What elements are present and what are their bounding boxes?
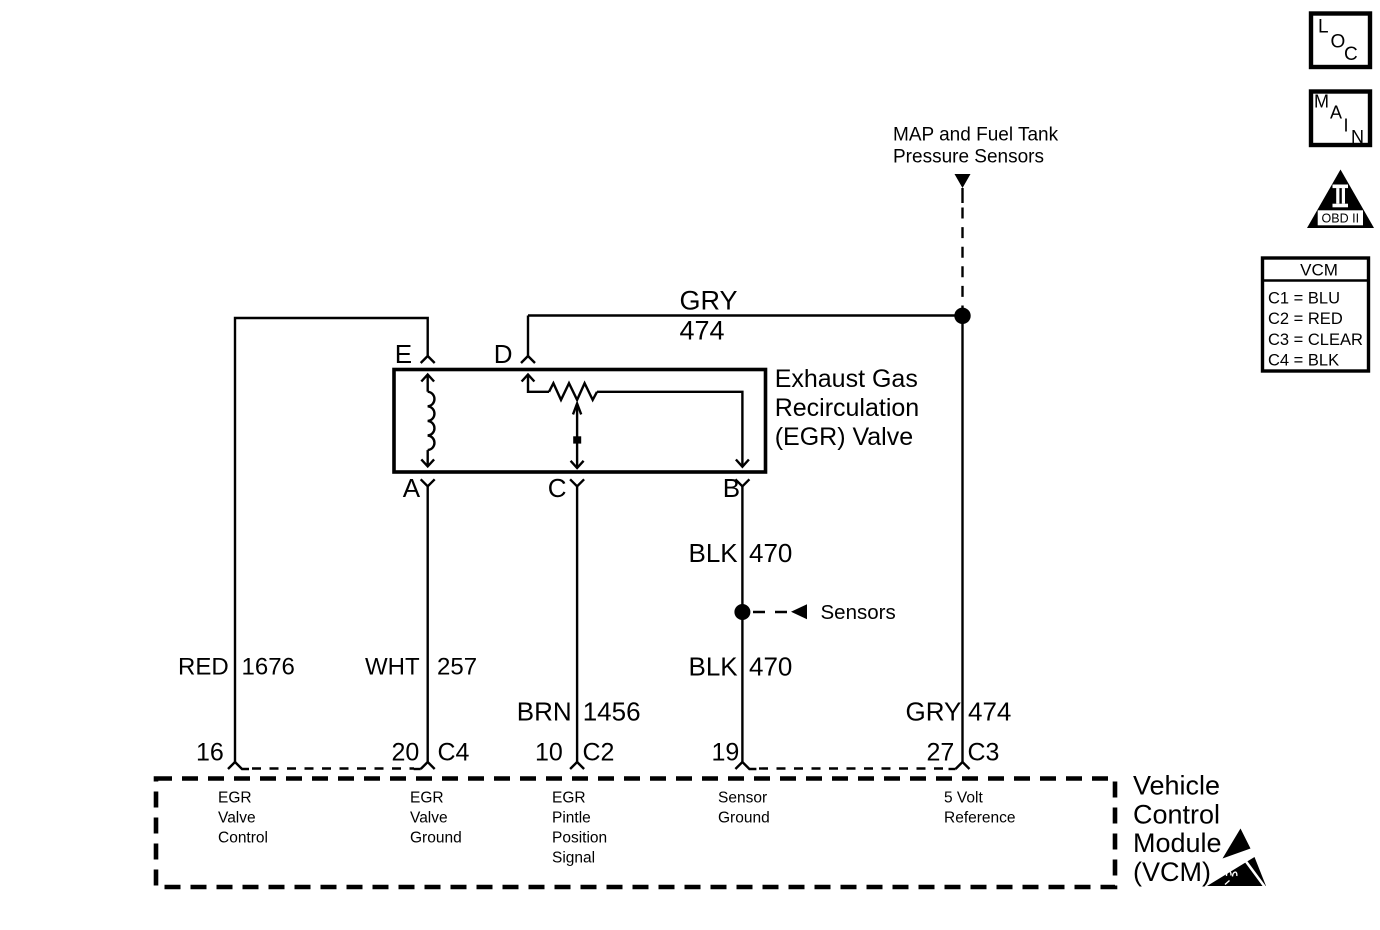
VCM module dashed box [156,779,1115,888]
svg-text:470: 470 [749,538,792,568]
label RED 1676 [178,654,295,681]
svg-text:RED: RED [178,654,229,681]
svg-text:Sensors: Sensors [821,601,896,624]
svg-text:Position: Position [552,830,607,847]
svg-text:10: 10 [535,738,563,766]
wire: BRN 1456 from C to VCM pin 10 [576,486,578,762]
label BRN 1456 [517,697,641,727]
wire: GRY 474 vertical to VCM pin 27 [961,316,963,763]
svg-text:(EGR) Valve: (EGR) Valve [775,423,913,451]
svg-text:D: D [494,339,513,369]
svg-text:Recirculation: Recirculation [775,394,920,422]
svg-text:C1 = BLU: C1 = BLU [1268,290,1340,308]
svg-text:GRY: GRY [680,286,738,316]
wire: dashed to Sensors [753,611,788,613]
MAIN reference box [1311,92,1370,148]
label: EGR Valve Ground [410,790,462,847]
LOC reference box [1311,14,1370,68]
svg-text:Control: Control [1133,799,1220,829]
svg-text:257: 257 [437,654,477,681]
connector terminal A (Y) [421,479,435,486]
svg-text:Sensor: Sensor [718,790,767,807]
label: Sensor Ground [718,790,770,827]
svg-text:GRY: GRY [906,697,962,727]
connector C4 dashed link pins 16-20 [252,767,414,769]
svg-text:5 Volt: 5 Volt [944,790,983,807]
svg-text:1456: 1456 [583,697,641,727]
wire: from EGR pin D up to GRY wire [527,316,529,357]
label: Exhaust Gas Recirculation (EGR) Valve [775,365,920,451]
VCM pin 10 connector C2 [535,738,614,769]
wire: GRY 474 horizontal from EGR D to junction [528,314,963,316]
VCM pin 19 connector [712,738,757,769]
svg-text:Valve: Valve [218,810,256,827]
svg-text:A: A [403,473,421,503]
VCM pin 16 connector [196,738,249,769]
off-page arrow to MAP sensors [955,174,971,188]
svg-text:BLK: BLK [689,652,739,682]
svg-text:EGR: EGR [410,790,444,807]
VCM pin 20 connector C4 [392,738,470,769]
resistor zigzag [549,383,597,400]
label: EGR Valve Control [218,790,268,847]
svg-text:C3: C3 [968,738,1000,766]
wire: dashed GRY to MAP sensors [961,188,963,203]
svg-text:WHT: WHT [365,654,420,681]
svg-text:Pintle: Pintle [552,810,591,827]
svg-text:474: 474 [968,697,1011,727]
svg-text:EGR: EGR [218,790,252,807]
OBD II symbol [1307,170,1374,229]
svg-text:A: A [1330,103,1342,123]
svg-text:BRN: BRN [517,697,572,727]
svg-text:Ground: Ground [410,830,462,847]
svg-text:16: 16 [196,738,224,766]
svg-text:C: C [1344,44,1358,65]
wiper contact square [573,436,581,443]
label: Vehicle Control Module (VCM) [1133,771,1222,887]
svg-text:C2 = RED: C2 = RED [1268,310,1343,328]
svg-text:19: 19 [712,738,740,766]
VCM pin 27 connector C3 [927,738,1000,769]
svg-text:N: N [1351,127,1364,147]
connector terminal C (Y) [570,479,584,486]
node: junction on BLK wire to sensors [734,604,750,620]
label BLK 470 (upper) [689,538,793,568]
wire: WHT 257 from A to VCM pin 20 [427,486,429,762]
svg-text:M: M [1314,92,1329,112]
label: MAP and Fuel Tank Pressure Sensors [893,125,1059,168]
svg-text:470: 470 [749,652,792,682]
arrow up at D inside box [528,375,549,392]
svg-text:Reference: Reference [944,810,1016,827]
arrow to sensors [791,604,807,619]
EGR valve box [394,370,766,473]
label GRY 474 (top) [680,286,738,346]
connector terminal D (chevron) [521,356,535,363]
connector terminal B (Y) [735,479,749,486]
connector C3 dashed link pins 19-27 [759,767,949,769]
svg-text:C4: C4 [438,738,470,766]
svg-text:OBD II: OBD II [1322,211,1360,225]
svg-text:C3 = CLEAR: C3 = CLEAR [1268,331,1363,349]
svg-text:Signal: Signal [552,850,595,867]
node: junction GRY wire [954,308,970,324]
svg-text:BLK: BLK [689,538,739,568]
label: 5 Volt Reference [944,790,1016,827]
label BLK 470 (lower) [689,652,793,682]
svg-text:Pressure Sensors: Pressure Sensors [893,147,1044,168]
svg-text:Control: Control [218,830,268,847]
svg-text:Ground: Ground [718,810,770,827]
svg-text:1676: 1676 [242,654,295,681]
svg-text:474: 474 [680,316,725,346]
svg-text:I: I [1344,116,1349,136]
ESD sensitivity symbol [1207,829,1266,887]
svg-text:C4 = BLK: C4 = BLK [1268,352,1339,370]
label WHT 257 [365,654,477,681]
connector terminal E (chevron) [421,356,435,363]
wire: from EGR pin E up and left down to VCM pin 16 (RED 1676) [235,318,428,762]
svg-text:VCM: VCM [1300,261,1338,280]
svg-text:Valve: Valve [410,810,448,827]
svg-text:B: B [723,473,740,503]
svg-text:20: 20 [392,738,420,766]
svg-text:Vehicle: Vehicle [1133,771,1220,801]
svg-text:EGR: EGR [552,790,586,807]
svg-text:Module: Module [1133,828,1222,858]
label: EGR Pintle Position Signal [552,790,607,867]
wire: BLK 470 from B to VCM pin 19 [741,486,743,762]
potentiometer (EGR pintle position sensor) [522,375,749,467]
svg-text:C: C [548,473,567,503]
potentiometer wiper arm [571,404,584,469]
svg-text:E: E [395,339,412,369]
coil (EGR solenoid winding) [421,375,434,467]
VCM connector legend box [1263,258,1369,371]
label GRY 474 (lower) [906,697,1012,727]
svg-text:Exhaust Gas: Exhaust Gas [775,365,918,393]
wire to B side [597,392,742,467]
svg-text:27: 27 [927,738,955,766]
svg-text:L: L [1318,17,1329,38]
svg-text:MAP and Fuel Tank: MAP and Fuel Tank [893,125,1059,146]
svg-text:C2: C2 [583,738,615,766]
svg-text:(VCM): (VCM) [1133,857,1211,887]
